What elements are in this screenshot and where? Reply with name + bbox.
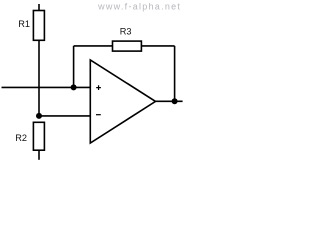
- op-amp + input marker: [96, 85, 101, 90]
- svg-text:R3: R3: [120, 26, 132, 36]
- resistor R1: [33, 11, 44, 41]
- svg-text:R2: R2: [15, 133, 27, 143]
- wire R2 bottom stub: [38, 150, 40, 160]
- node R1/R2 divider junction: [36, 113, 42, 119]
- wire R1 top supply stub: [38, 4, 40, 11]
- node output junction: [172, 98, 178, 104]
- wire inverting input horizontal: [39, 115, 90, 117]
- wire feedback right vertical: [174, 46, 176, 101]
- wire R3 right to corner: [141, 45, 174, 47]
- wire non-inverting input horizontal: [2, 86, 91, 88]
- op-amp U1 triangle: [90, 60, 155, 143]
- wire output stub: [156, 100, 183, 102]
- wire feedback left vertical: [73, 46, 75, 88]
- resistor R3: [113, 41, 142, 51]
- resistor R2: [33, 122, 44, 150]
- wire R1 bottom down to divider node: [38, 40, 40, 116]
- svg-text:www.f-alpha.net: www.f-alpha.net: [97, 1, 181, 11]
- svg-text:R1: R1: [18, 19, 30, 29]
- op-amp - input marker: [96, 114, 101, 116]
- node feedback / + input junction: [71, 84, 77, 90]
- wire feedback top horizontal: [74, 45, 113, 47]
